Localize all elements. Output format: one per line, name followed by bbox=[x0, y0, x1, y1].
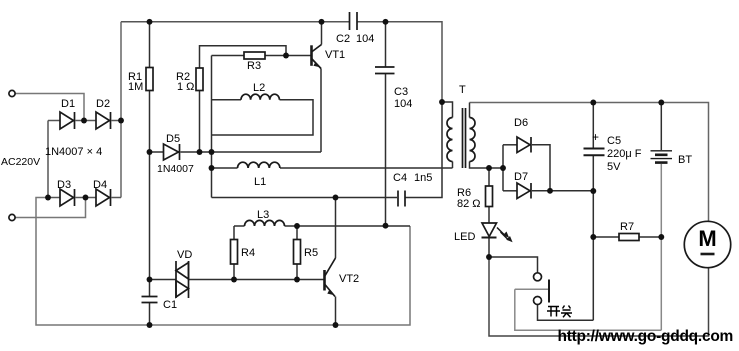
svg-text:L3: L3 bbox=[257, 209, 269, 221]
wire: feedback vertical bbox=[211, 56, 213, 198]
svg-text:AC220V: AC220V bbox=[1, 156, 40, 168]
wire: C3 column bbox=[385, 22, 387, 67]
wire: R6 stems bbox=[488, 168, 490, 186]
svg-text:R7: R7 bbox=[620, 221, 634, 233]
capacitor C1 bbox=[142, 297, 158, 303]
wire: L1 row bbox=[212, 167, 238, 169]
wire: C5 column bbox=[592, 103, 594, 148]
wire: R2 column bottom bbox=[199, 91, 201, 153]
wire: D7 row bbox=[503, 190, 517, 192]
wire: LED dot to switch bbox=[489, 257, 538, 273]
svg-text:1N4007: 1N4007 bbox=[157, 163, 194, 175]
svg-text:C4: C4 bbox=[393, 172, 407, 184]
svg-text:220μ F: 220μ F bbox=[607, 148, 642, 160]
svg-text:1n5: 1n5 bbox=[414, 172, 432, 184]
wire: VT1 collector column bbox=[321, 22, 323, 45]
wire: R3 row bbox=[212, 55, 245, 57]
wire: LED cathode stem bbox=[488, 238, 490, 258]
svg-text:D6: D6 bbox=[514, 117, 528, 129]
svg-text:104: 104 bbox=[394, 98, 412, 110]
wire: bridge right vertical bbox=[120, 22, 122, 198]
transformer T primary bbox=[447, 118, 453, 162]
svg-text:D5: D5 bbox=[166, 133, 180, 145]
resistor R2 bbox=[196, 68, 203, 91]
svg-text:L1: L1 bbox=[254, 176, 266, 188]
motor M bbox=[684, 221, 730, 267]
wire: motor loop bbox=[489, 257, 709, 336]
diac VD bbox=[176, 261, 189, 298]
wire: R4 stems bbox=[233, 226, 235, 240]
wire: lever wire bbox=[515, 288, 548, 290]
svg-text:1 Ω: 1 Ω bbox=[177, 81, 194, 93]
terminal input2 bbox=[9, 214, 15, 220]
resistor R4 bbox=[231, 240, 238, 265]
wire: secondary top rail bbox=[470, 103, 709, 222]
inductor L2 bbox=[241, 94, 279, 100]
wire: primary top stub bbox=[442, 102, 453, 118]
svg-text:T: T bbox=[459, 84, 466, 96]
svg-text:104: 104 bbox=[356, 33, 374, 45]
wire: bridge left vertical bbox=[47, 121, 49, 198]
wire: VT2 emitter column bbox=[335, 297, 337, 326]
resistor R7 bbox=[619, 234, 639, 241]
capacitor C4 bbox=[398, 191, 405, 207]
svg-text:VT1: VT1 bbox=[325, 49, 345, 61]
svg-text:VT2: VT2 bbox=[339, 273, 359, 285]
svg-text:D2: D2 bbox=[96, 98, 110, 110]
svg-text:L2: L2 bbox=[253, 82, 265, 94]
wire: D3 D4 row bbox=[48, 197, 60, 199]
wire: R5 stems bbox=[296, 226, 298, 240]
capacitor C5 bbox=[584, 149, 605, 156]
wire: L3 row bbox=[234, 225, 245, 227]
wire: VD row bbox=[150, 279, 177, 281]
capacitor C3 bbox=[375, 67, 395, 74]
svg-text:C3: C3 bbox=[394, 86, 408, 98]
wire: D6 row bbox=[503, 144, 517, 146]
wire: D6 D7 branch vertical bbox=[502, 145, 504, 191]
switch contact bottom bbox=[534, 297, 542, 305]
svg-text:LED: LED bbox=[454, 231, 475, 243]
wire: R7 row bbox=[593, 236, 619, 238]
wire: L2 row bbox=[212, 99, 242, 101]
wire: switch bottom loop bbox=[538, 305, 594, 321]
switch contact top bbox=[534, 273, 542, 281]
svg-text:R4: R4 bbox=[241, 247, 255, 259]
diode D4 bbox=[96, 189, 111, 206]
wire: VT1 emitter column bbox=[320, 69, 322, 153]
wire: R2 column top bbox=[200, 46, 287, 68]
svg-text:VD: VD bbox=[177, 249, 192, 261]
svg-text:C5: C5 bbox=[607, 135, 621, 147]
wire: D5 row bbox=[150, 151, 164, 153]
wire: top rail bbox=[121, 21, 350, 23]
wire: C1 stems bbox=[149, 280, 151, 297]
svg-text:D7: D7 bbox=[514, 171, 528, 183]
transformer T core bbox=[463, 108, 466, 168]
diode D6 bbox=[517, 137, 531, 153]
wire: secondary top stub bbox=[469, 103, 471, 118]
svg-text:D3: D3 bbox=[57, 179, 71, 191]
svg-text:http://www.go-gddq.com: http://www.go-gddq.com bbox=[558, 328, 734, 345]
junction dots bbox=[81, 118, 87, 124]
svg-text:R3: R3 bbox=[247, 60, 261, 72]
wire: R1 column bbox=[149, 22, 151, 68]
svg-text:D4: D4 bbox=[93, 179, 107, 191]
svg-text:D1: D1 bbox=[61, 98, 75, 110]
svg-text:C1: C1 bbox=[163, 299, 177, 311]
svg-text:5V: 5V bbox=[607, 161, 621, 173]
wire: to bottom rail from bridge minus bbox=[36, 198, 410, 326]
svg-text:+: + bbox=[592, 130, 599, 144]
diode D3 bbox=[60, 189, 75, 206]
resistor R5 bbox=[294, 240, 301, 265]
LED bbox=[482, 223, 513, 242]
wire: AC input top bbox=[15, 94, 84, 121]
battery BT bbox=[651, 151, 673, 163]
terminal input1 bbox=[9, 90, 15, 96]
wire: C4 row bbox=[212, 197, 398, 199]
resistor R1 bbox=[146, 68, 153, 91]
svg-text:C2: C2 bbox=[336, 33, 350, 45]
svg-text:R5: R5 bbox=[304, 247, 318, 259]
label switch 开关 bbox=[547, 306, 572, 318]
svg-text:BT: BT bbox=[678, 154, 692, 166]
svg-text:1N4007 × 4: 1N4007 × 4 bbox=[45, 146, 102, 158]
inductor L3 bbox=[245, 220, 285, 226]
wire: VT2 collector column bbox=[335, 198, 337, 259]
transistor VT2 bbox=[325, 258, 336, 297]
inductor L1 bbox=[238, 162, 280, 168]
wire: AC input bottom bbox=[15, 198, 85, 218]
diode D2 bbox=[96, 112, 111, 129]
resistor R6 bbox=[486, 186, 493, 207]
wire: primary bottom stub bbox=[452, 162, 454, 169]
svg-text:1M: 1M bbox=[128, 81, 143, 93]
capacitor C2 bbox=[350, 12, 358, 30]
wire: secondary bottom stub bbox=[470, 162, 504, 169]
resistor R3 bbox=[244, 52, 265, 59]
diode D1 bbox=[60, 112, 75, 129]
wire: D1 D2 row bbox=[48, 120, 60, 122]
transformer T secondary bbox=[469, 118, 475, 162]
transistor VT1 bbox=[312, 45, 322, 69]
svg-text:82 Ω: 82 Ω bbox=[457, 198, 481, 210]
switch lever bbox=[548, 280, 550, 303]
svg-text:M: M bbox=[698, 226, 716, 251]
diode D7 bbox=[517, 183, 531, 199]
diode D5 bbox=[164, 144, 180, 160]
wire: BT column bbox=[660, 103, 662, 151]
wire: lever to BT bottom bbox=[515, 289, 662, 330]
